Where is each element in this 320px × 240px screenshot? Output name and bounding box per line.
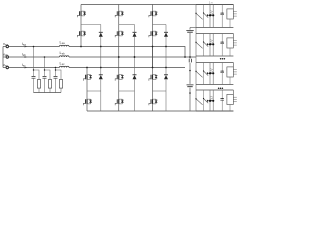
leg3 upper tap	[153, 24, 167, 26]
ellipsis dots lower	[218, 87, 220, 89]
stack capacitor C1	[186, 30, 193, 32]
mosfet S41	[83, 98, 92, 105]
DC stack column	[189, 28, 191, 112]
cell 4	[195, 90, 236, 111]
filter riser B	[45, 57, 51, 80]
mosfet S31	[83, 74, 92, 81]
leg3 upper column	[152, 5, 154, 68]
filter resistor RC	[59, 80, 62, 89]
cell 2	[195, 34, 236, 57]
svg-text:isb: isb	[22, 52, 26, 58]
filter capacitor CA	[32, 76, 36, 78]
mosfet S22	[115, 30, 124, 37]
leg1 lower column	[86, 68, 88, 112]
mosfet S21	[77, 30, 86, 37]
svg-text:vsb: vsb	[3, 52, 8, 58]
filter bottom bus	[34, 92, 62, 94]
svg-text:vsa: vsa	[3, 41, 8, 47]
leg2 clamp column	[134, 25, 136, 112]
source vsc	[6, 66, 8, 68]
diode D13	[164, 32, 168, 37]
inductor Lsa	[59, 45, 69, 46]
inductor Lsc	[59, 66, 69, 67]
node dots leg3	[152, 67, 154, 69]
diode D23	[164, 75, 168, 80]
mosfet S11	[77, 10, 86, 17]
source vsb	[6, 56, 8, 58]
stack capacitor C2	[189, 59, 191, 63]
leg3 clamp column	[165, 25, 167, 112]
node dots leg2	[118, 56, 120, 58]
diode D21	[99, 75, 103, 80]
diode D22	[133, 75, 137, 80]
leg2 lower tap	[119, 90, 135, 92]
svg-text:Lsa: Lsa	[60, 39, 66, 45]
cells left bus	[195, 5, 197, 112]
leg1 upper column	[80, 5, 82, 47]
filter capacitor CB	[43, 76, 47, 78]
filter resistor RB	[48, 80, 51, 89]
leg3 lower column	[152, 47, 154, 112]
filter capacitor CC	[54, 76, 58, 78]
current arrow isb	[25, 56, 28, 58]
current arrow isc	[25, 67, 28, 69]
leg2 upper column	[118, 5, 120, 58]
wire phase C	[9, 67, 185, 69]
source vsa	[6, 45, 8, 47]
node dot junction	[184, 56, 186, 58]
mosfet S33	[149, 74, 158, 81]
leg2 upper tap	[119, 24, 135, 26]
mosfet S23	[149, 30, 158, 37]
wire phase B	[9, 56, 196, 58]
svg-text:Lsc: Lsc	[60, 60, 66, 66]
diode D12	[133, 32, 137, 37]
svg-text:Lsb: Lsb	[60, 50, 66, 56]
bottom DC rail	[87, 110, 233, 112]
mosfet S12	[115, 10, 124, 17]
filter riser C	[56, 68, 62, 80]
svg-text:isc: isc	[22, 62, 26, 68]
leg1 upper tap	[81, 24, 101, 26]
source star bus	[2, 47, 4, 68]
svg-text:vsc: vsc	[3, 62, 8, 68]
leg1 clamp column	[100, 25, 102, 112]
wire phase A	[9, 47, 185, 58]
inductor Lsb	[59, 56, 69, 57]
diode D11	[99, 32, 103, 37]
mosfet S42	[115, 98, 124, 105]
mosfet S13	[149, 10, 158, 17]
mosfet S32	[115, 74, 124, 81]
leg2 lower column	[118, 57, 120, 111]
svg-text:1:n: 1:n	[209, 0, 213, 4]
node dots leg1	[80, 46, 82, 48]
filter riser A	[34, 47, 40, 80]
top DC rail	[81, 4, 233, 6]
current arrow isa	[25, 46, 28, 48]
cell 1	[195, 5, 236, 28]
stack node dots	[189, 56, 191, 58]
filter resistor RA	[37, 80, 40, 89]
stack capacitor C3	[187, 85, 194, 87]
leg1 lower tap	[87, 90, 101, 92]
ellipsis dots upper	[220, 58, 222, 60]
leg3 lower tap	[153, 90, 167, 92]
cell 3	[195, 63, 236, 85]
cell1 bottom link	[190, 27, 196, 29]
mosfet S43	[149, 98, 158, 105]
svg-text:isa: isa	[22, 41, 26, 47]
